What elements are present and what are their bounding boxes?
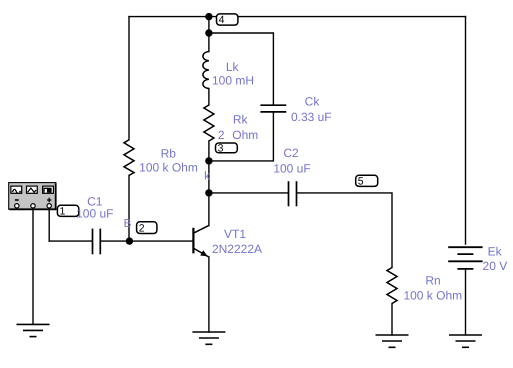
svg-text:Ek: Ek — [488, 245, 503, 259]
junction collector/C2 — [205, 189, 212, 196]
node box 3 — [216, 143, 238, 155]
battery Ek — [448, 247, 482, 269]
svg-text:Lk: Lk — [226, 60, 240, 74]
junction node k — [205, 157, 212, 164]
wire Rb bottom — [128, 175, 130, 241]
svg-text:C2: C2 — [283, 146, 299, 160]
svg-text:100 k Ohm: 100 k Ohm — [403, 288, 462, 302]
wire Lk-Rk link — [208, 89, 210, 106]
svg-text:Rb: Rb — [161, 146, 177, 160]
wire FG common terminal drop — [32, 206, 34, 324]
wire Ck branch top — [209, 33, 274, 104]
wire to Lk top — [208, 33, 210, 52]
junction node 4 top — [205, 13, 212, 20]
svg-text:2N2222A: 2N2222A — [212, 242, 262, 256]
svg-text:5: 5 — [358, 176, 364, 188]
wire collector run — [208, 161, 210, 226]
wire C2 rail left — [209, 192, 288, 194]
wire top rail — [129, 16, 466, 18]
svg-text:2: 2 — [218, 128, 225, 142]
svg-text:1: 1 — [60, 206, 66, 218]
ground (Ek) — [449, 335, 482, 347]
transistor VT1 — [193, 226, 208, 257]
svg-text:2: 2 — [139, 223, 145, 235]
wire Rb top — [128, 17, 130, 140]
svg-text:Ck: Ck — [305, 94, 321, 108]
node box 5 — [356, 175, 378, 187]
wire Rn bottom — [391, 304, 393, 336]
wire battery top — [465, 17, 467, 244]
wire Ck branch bottom — [209, 113, 274, 161]
svg-text:100 mH: 100 mH — [212, 73, 254, 87]
svg-text:100 uF: 100 uF — [76, 207, 113, 221]
wire node4 drop — [208, 17, 210, 33]
junction tank top — [205, 29, 212, 36]
function generator instrument — [9, 183, 57, 210]
svg-text:k: k — [204, 170, 210, 182]
wire battery bottom — [465, 269, 467, 335]
ground (Rn) — [376, 335, 409, 347]
capacitor C1 — [93, 229, 101, 255]
wire emitter run — [208, 257, 210, 332]
transistor emitter arrow — [200, 250, 208, 256]
wire base left (node1 to C1) — [49, 240, 91, 242]
node box 1 — [57, 205, 78, 217]
junction node B — [126, 237, 133, 244]
svg-text:100 uF: 100 uF — [273, 162, 310, 176]
node box 4 — [217, 14, 238, 26]
resistor Rb — [124, 140, 134, 176]
wire FG plus terminal drop — [48, 206, 50, 241]
node box 2 — [137, 222, 157, 235]
ground (function generator) — [17, 324, 50, 336]
svg-text:3: 3 — [218, 143, 224, 155]
ground (emitter) — [192, 332, 225, 344]
svg-text:Rk: Rk — [233, 112, 249, 126]
resistor Rn — [387, 268, 397, 304]
svg-text:100 k Ohm: 100 k Ohm — [139, 161, 198, 175]
capacitor C2 — [289, 181, 297, 206]
svg-text:B: B — [124, 218, 132, 230]
wire Rk bottom to node k — [208, 141, 210, 161]
svg-text:Ohm: Ohm — [232, 128, 258, 142]
svg-text:Rn: Rn — [425, 273, 440, 287]
resistor Rk — [204, 105, 214, 141]
svg-text:0.33 uF: 0.33 uF — [291, 110, 332, 124]
svg-text:4: 4 — [219, 14, 225, 26]
svg-text:20 V: 20 V — [483, 259, 508, 273]
svg-text:VT1: VT1 — [224, 227, 246, 241]
capacitor Ck — [260, 105, 286, 112]
inductor Lk — [203, 52, 209, 89]
wire C2 rail right — [297, 193, 392, 268]
wire base right (C1 to base) — [101, 240, 192, 242]
